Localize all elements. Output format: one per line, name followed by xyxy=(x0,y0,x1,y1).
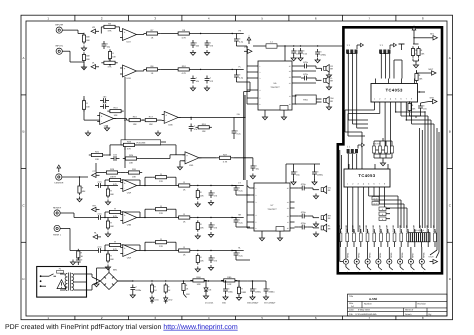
wire IC1 inputs xyxy=(247,46,254,104)
capacitor C50 xyxy=(418,103,427,111)
wires U8 down xyxy=(345,107,434,229)
svg-text:VOLUME: VOLUME xyxy=(136,142,146,145)
svg-text:SPK4: SPK4 xyxy=(379,252,382,258)
svg-text:GL60R: GL60R xyxy=(379,224,382,231)
connector header P1 xyxy=(346,43,363,54)
svg-text:TDA7377: TDA7377 xyxy=(270,86,280,89)
ground GND12 xyxy=(291,56,296,61)
svg-text:CENTER: CENTER xyxy=(54,182,63,185)
svg-text:47K: 47K xyxy=(108,30,112,33)
svg-text:2200u: 2200u xyxy=(317,174,324,177)
svg-text:10K: 10K xyxy=(86,105,90,108)
svg-text:o: o xyxy=(369,272,370,274)
svg-text:B: B xyxy=(449,130,451,134)
net tag NT13 OUT xyxy=(430,259,438,263)
IC U6 power amplifier xyxy=(254,61,297,115)
svg-text:MUT: MUT xyxy=(429,68,434,71)
svg-text:2200u: 2200u xyxy=(269,291,276,294)
ground GND11 xyxy=(77,197,82,202)
resistor R61 xyxy=(153,173,169,183)
svg-text:-: - xyxy=(124,187,125,190)
svg-text:A: A xyxy=(22,56,24,60)
wire vertical bus A xyxy=(124,77,125,168)
speaker SP4 CENTER xyxy=(321,186,331,194)
speaker SP2 FRONT L xyxy=(324,77,334,85)
ground GNDb2 xyxy=(195,267,200,272)
svg-text:50K: 50K xyxy=(86,55,90,58)
wire rail stub xyxy=(205,280,266,287)
capacitor C13 xyxy=(111,153,120,161)
svg-text:10K: 10K xyxy=(412,107,416,110)
dense block xyxy=(409,229,431,242)
svg-text:SPK2: SPK2 xyxy=(358,252,361,258)
svg-text:100R: 100R xyxy=(241,291,246,294)
svg-text:U4A: U4A xyxy=(127,192,132,195)
capacitor C31 xyxy=(209,190,218,198)
op-amp op-amp U1B xyxy=(120,65,139,80)
resistor R19 xyxy=(196,123,212,133)
net tag NT6 xyxy=(93,232,101,239)
capacitor C21 xyxy=(95,180,104,188)
capacitor C19 xyxy=(301,73,310,81)
resistor R7 xyxy=(144,29,160,39)
sheet frame inner border xyxy=(26,21,447,316)
wire tone low xyxy=(96,163,126,173)
wire stage0 out xyxy=(145,185,244,186)
net label SW xyxy=(237,113,240,116)
op-amp op-amp U4B xyxy=(120,212,139,227)
resistor R71 xyxy=(176,181,192,191)
svg-text:22K: 22K xyxy=(159,212,163,215)
net label CT xyxy=(238,182,241,185)
svg-text:47K: 47K xyxy=(108,66,112,69)
resistor R25 xyxy=(123,154,139,164)
capacitor C44 2200uF xyxy=(264,286,276,294)
ground GND14 xyxy=(315,58,320,63)
svg-text:GL60R: GL60R xyxy=(365,224,368,231)
svg-text:SPK8: SPK8 xyxy=(423,252,426,258)
resistor R17 xyxy=(143,116,159,126)
wire IC1 vdd xyxy=(284,46,286,61)
resistor R21 xyxy=(89,151,105,161)
wire tone fb xyxy=(105,145,176,156)
ground GND20 xyxy=(203,294,208,299)
svg-text:U5A: U5A xyxy=(127,257,132,260)
IC U7 power amplifier xyxy=(250,183,295,236)
ground GND18 xyxy=(70,260,75,265)
wire stage0 loop xyxy=(139,177,176,186)
svg-text:PDF created with FinePrint pdf: PDF created with FinePrint pdfFactory tr… xyxy=(5,323,238,331)
ground GND10 xyxy=(250,174,255,179)
svg-text:Date:: Date: xyxy=(349,309,355,312)
svg-text:LED: LED xyxy=(154,299,159,302)
resistor R70 xyxy=(411,46,419,57)
svg-text:INPUTR: INPUTR xyxy=(55,24,64,27)
svg-text:10K: 10K xyxy=(200,259,204,262)
capacitor C43 xyxy=(234,250,244,258)
resistor R2 50K xyxy=(82,52,90,62)
ground GND IC2b xyxy=(277,236,282,241)
speaker SP5 REAR R xyxy=(321,214,331,222)
ground GND SP5 xyxy=(313,222,318,227)
wire right top xyxy=(413,34,430,63)
ground GND IC1b xyxy=(281,115,286,120)
svg-text:-: - xyxy=(124,219,125,222)
wires header1 down xyxy=(348,53,368,128)
warning triangle xyxy=(57,280,66,289)
speaker SP1 FRONT R xyxy=(324,65,334,73)
svg-text:REAR L: REAR L xyxy=(53,233,62,236)
ground GND23 xyxy=(263,295,268,300)
transformer T1 xyxy=(60,273,80,291)
wire row1 to right xyxy=(236,34,247,47)
capacitor C1 xyxy=(102,41,111,49)
ground GND5 xyxy=(190,86,195,91)
svg-text:By:: By: xyxy=(429,313,433,316)
net label FR xyxy=(239,30,242,33)
svg-text:GL60R: GL60R xyxy=(372,224,375,231)
title block text xyxy=(349,295,432,316)
resistor R83 xyxy=(196,253,204,264)
capacitor C22 xyxy=(95,212,104,220)
svg-text:o: o xyxy=(358,272,359,274)
op-amp op-amp U1A xyxy=(120,29,139,44)
ground GNDc2 xyxy=(208,265,213,270)
resistor R4 xyxy=(101,58,117,68)
net tag NT5 xyxy=(92,204,100,211)
svg-text:GL60R: GL60R xyxy=(352,224,355,231)
capacitor C7 xyxy=(234,36,244,44)
resistor R82 xyxy=(196,220,204,231)
ground GND21 xyxy=(223,295,228,300)
wires U9 down xyxy=(348,192,408,233)
resistor R81 xyxy=(196,188,204,199)
svg-text:SPK3: SPK3 xyxy=(368,252,371,258)
selector module box (thick) xyxy=(338,27,442,273)
svg-text:B8R GROUP: B8R GROUP xyxy=(414,229,425,232)
svg-text:50K: 50K xyxy=(110,193,114,196)
net tag NT4 xyxy=(92,170,100,177)
wire sp2 xyxy=(297,77,322,83)
svg-text:4.7K: 4.7K xyxy=(181,72,186,75)
svg-text:GL60R: GL60R xyxy=(406,224,409,231)
svg-text:o: o xyxy=(390,272,391,274)
power symbol P2 xyxy=(57,165,61,172)
resistor R72 xyxy=(415,71,423,82)
svg-text:SPK5: SPK5 xyxy=(390,252,393,258)
resistor R13 xyxy=(107,107,123,117)
op-amp op-amp U3A xyxy=(183,152,202,167)
svg-text:22K: 22K xyxy=(159,180,163,183)
svg-text:470u: 470u xyxy=(303,61,309,64)
net tag NT3 xyxy=(244,46,252,53)
resistor network RN1 xyxy=(295,95,316,104)
svg-text:-: - xyxy=(124,72,125,75)
speaker SP6 REAR L xyxy=(321,224,331,232)
wire sp6 xyxy=(295,226,320,229)
potentiometer VR1 volume block xyxy=(121,140,161,145)
resistor R41 xyxy=(106,187,114,198)
resistor R73 xyxy=(408,101,416,112)
label +OUT xyxy=(428,256,434,259)
svg-text:D1 LED1: D1 LED1 xyxy=(205,302,214,305)
svg-text:Revision: Revision xyxy=(418,302,427,305)
svg-text:GL60R: GL60R xyxy=(399,224,402,231)
svg-text:10K: 10K xyxy=(95,158,99,161)
capacitor C5 xyxy=(205,40,214,48)
power symbol PWR1 xyxy=(247,34,251,44)
svg-text:RR: RR xyxy=(328,215,332,218)
wire vertical bus B xyxy=(244,95,245,180)
ground GND7 xyxy=(85,131,90,136)
svg-text:SPK1: SPK1 xyxy=(347,252,350,258)
wire right low xyxy=(410,91,430,118)
net tag NT2 xyxy=(91,62,99,69)
capacitor C8 xyxy=(234,72,244,80)
svg-text:o: o xyxy=(379,272,380,274)
ground GND22 xyxy=(250,295,255,300)
capacitor C11 xyxy=(189,124,198,132)
svg-text:50K: 50K xyxy=(110,225,114,228)
connector CN1 row xyxy=(343,247,425,270)
diode D5 xyxy=(204,286,212,294)
wire stage2 loop xyxy=(139,242,176,251)
svg-text:File:: File: xyxy=(349,313,354,316)
svg-text:10K: 10K xyxy=(114,114,118,117)
svg-text:SPK7: SPK7 xyxy=(412,252,415,258)
svg-text:o: o xyxy=(423,272,424,274)
capacitor C14 xyxy=(251,163,260,171)
resistor R5 xyxy=(108,49,116,60)
mains box xyxy=(37,267,87,298)
wire sp3 xyxy=(295,96,321,102)
capacitor C40 xyxy=(76,257,83,265)
ground GNDb0 xyxy=(195,202,200,207)
title block xyxy=(348,294,448,316)
ground GND IC1 xyxy=(262,115,267,120)
svg-text:-: - xyxy=(165,119,166,122)
wire stage1 out xyxy=(145,217,244,218)
svg-text:-: - xyxy=(124,36,125,39)
svg-text:GL60R: GL60R xyxy=(345,224,348,231)
svg-text:10K: 10K xyxy=(419,77,423,80)
wire row1 bus xyxy=(139,33,244,35)
svg-text:Sheet of: Sheet of xyxy=(405,309,414,312)
ground GND15 xyxy=(291,180,296,185)
svg-text:50K: 50K xyxy=(110,258,114,261)
wire bridge xyxy=(92,268,133,285)
svg-text:-: - xyxy=(124,252,125,255)
capacitor C30 xyxy=(312,169,324,177)
ground GNDa2 xyxy=(105,265,110,270)
resistor R95 xyxy=(221,276,237,286)
svg-text:D:\Protel98\A550.ddb: D:\Protel98\A550.ddb xyxy=(356,313,378,316)
svg-text:2200u: 2200u xyxy=(255,291,262,294)
wire tone in xyxy=(139,152,185,165)
svg-text:U1A: U1A xyxy=(127,41,132,44)
svg-text:470u: 470u xyxy=(301,183,307,186)
wire right mid xyxy=(417,70,429,73)
wire sp4 xyxy=(295,188,320,190)
ground GNDa0 xyxy=(105,200,110,205)
resistor R72 xyxy=(176,213,192,223)
diode LED2 xyxy=(164,296,173,304)
resistor R43 xyxy=(106,252,114,263)
capacitor C16 xyxy=(298,48,308,56)
power symbol PWR2 xyxy=(412,24,416,34)
wire bottom rail xyxy=(118,280,248,281)
op-amp op-amp U2B xyxy=(162,111,181,126)
svg-text:GL60R: GL60R xyxy=(392,224,395,231)
svg-text:C66 2200uF: C66 2200uF xyxy=(247,302,259,305)
resistor bank labels xyxy=(338,224,436,231)
wires header2 down xyxy=(381,53,402,79)
svg-text:4700u: 4700u xyxy=(135,289,142,292)
svg-text:SW: SW xyxy=(237,113,240,116)
svg-text:10K: 10K xyxy=(421,52,425,55)
ground GNDa1 xyxy=(105,232,110,237)
resistor R9 xyxy=(176,29,192,39)
wire stage0 right xyxy=(232,185,250,195)
resistor R73 xyxy=(176,246,192,256)
resistor R93 xyxy=(182,281,189,292)
wire sp5 xyxy=(295,216,320,218)
wire row3 right xyxy=(234,95,245,139)
resistor R42 xyxy=(106,219,114,230)
capacitor C17 4700uF xyxy=(315,49,327,57)
svg-text:10K: 10K xyxy=(202,130,206,133)
capacitor C23 xyxy=(95,245,104,253)
resistor R94 xyxy=(190,276,206,286)
ground GND19 xyxy=(130,293,135,298)
net tag NT10 xyxy=(430,33,438,40)
connector J3 CENTER xyxy=(56,174,62,180)
svg-text:VR: VR xyxy=(92,26,95,29)
svg-text:U1B: U1B xyxy=(127,77,132,80)
capacitor C10 xyxy=(100,101,109,109)
speaker SP3 SUBWOOFER xyxy=(324,97,334,105)
resistor R8 xyxy=(144,65,160,75)
ground GND1 xyxy=(81,46,86,51)
svg-text:TC4053: TC4053 xyxy=(358,173,376,178)
connector J1 INPUT R xyxy=(55,24,64,34)
wire sp1 xyxy=(297,66,322,71)
resistor R51 xyxy=(107,176,123,186)
resistor R91 xyxy=(150,283,157,294)
resistor R10 xyxy=(176,65,192,75)
ground GNDb1 xyxy=(195,234,200,239)
connector CN1 labels xyxy=(347,252,426,274)
wire row2 bus xyxy=(139,69,244,71)
svg-text:INPUTL: INPUTL xyxy=(55,45,64,48)
wire stage1 fb xyxy=(104,212,140,220)
resistor R27 xyxy=(217,153,233,163)
capacitor C33 xyxy=(209,255,218,263)
ground GND SP1 xyxy=(326,73,331,78)
wire stage1 right xyxy=(232,217,250,227)
svg-text:470u: 470u xyxy=(301,222,307,225)
svg-text:GL60R: GL60R xyxy=(385,224,388,231)
wire row3 mid xyxy=(114,119,162,121)
connector header P2 xyxy=(379,43,396,54)
wire stage1 loop xyxy=(139,209,176,218)
wire stage2 fb xyxy=(104,245,140,253)
wire jacks to stages xyxy=(60,176,95,250)
resistor R96 xyxy=(237,285,246,296)
ground GND SP3 xyxy=(326,105,331,110)
resistor R15 xyxy=(127,116,143,126)
wires header3 down xyxy=(348,154,356,169)
capacitor C41 4700uF xyxy=(130,285,142,293)
capacitor C3 xyxy=(191,40,200,48)
svg-text:470u: 470u xyxy=(303,73,309,76)
svg-text:U2B: U2B xyxy=(168,123,173,126)
IC U9 TC4053 xyxy=(344,164,390,192)
svg-text:50K: 50K xyxy=(86,58,90,61)
ground GND SP2 xyxy=(326,85,331,90)
op-amp op-amp U5A xyxy=(120,245,139,260)
capacitor C4 xyxy=(191,76,200,84)
ground GND8 xyxy=(155,131,160,136)
svg-text:TC4053: TC4053 xyxy=(386,88,404,93)
svg-text:SW: SW xyxy=(330,97,333,100)
wire row3 out xyxy=(178,117,234,120)
svg-text:10R: 10R xyxy=(196,283,200,286)
capacitor C42 xyxy=(223,286,233,294)
svg-text:10K: 10K xyxy=(133,123,137,126)
fuse F1 xyxy=(57,268,64,274)
op-amp op-amp U4A xyxy=(120,180,139,195)
wire IC2 top xyxy=(286,164,320,183)
svg-text:REAR R: REAR R xyxy=(53,207,62,210)
svg-text:TDA7377: TDA7377 xyxy=(267,208,277,211)
labels bottom rail xyxy=(205,302,276,305)
capacitor C33 xyxy=(299,222,308,230)
resistor R23 xyxy=(121,141,137,151)
svg-text:22K: 22K xyxy=(159,245,163,248)
switch SW1 xyxy=(46,274,56,276)
svg-text:RN1: RN1 xyxy=(303,99,308,102)
connector header P3 xyxy=(347,143,365,153)
net label RL xyxy=(238,247,241,250)
svg-text:4.7K: 4.7K xyxy=(223,161,228,164)
wire vr links xyxy=(125,142,166,150)
svg-text:STB: STB xyxy=(430,96,435,99)
ground GNDc0 xyxy=(208,200,213,205)
resistor R62 xyxy=(153,205,169,215)
svg-text:Drawn: Drawn xyxy=(405,313,412,316)
svg-text:RR: RR xyxy=(93,204,97,207)
connector J2 INPUT L xyxy=(55,45,64,55)
svg-text:C67 2200uF: C67 2200uF xyxy=(264,302,276,305)
svg-text:4.7K: 4.7K xyxy=(181,36,186,39)
capacitor C9 xyxy=(100,95,109,103)
power tap T1 xyxy=(399,44,405,50)
svg-text:470u: 470u xyxy=(301,211,307,214)
svg-text:50K: 50K xyxy=(82,190,86,193)
net tag NT12 xyxy=(429,96,437,103)
svg-text:B: B xyxy=(22,130,24,134)
resistor R90 xyxy=(77,249,84,260)
wire row2 to right xyxy=(236,69,250,82)
svg-text:4700u: 4700u xyxy=(320,54,327,57)
svg-text:-: - xyxy=(186,159,187,162)
diode LED1 xyxy=(150,296,159,304)
capacitor C43 2200uF xyxy=(250,286,262,294)
svg-text:10K: 10K xyxy=(149,123,153,126)
svg-text:o: o xyxy=(347,272,348,274)
svg-text:50K: 50K xyxy=(86,36,90,39)
